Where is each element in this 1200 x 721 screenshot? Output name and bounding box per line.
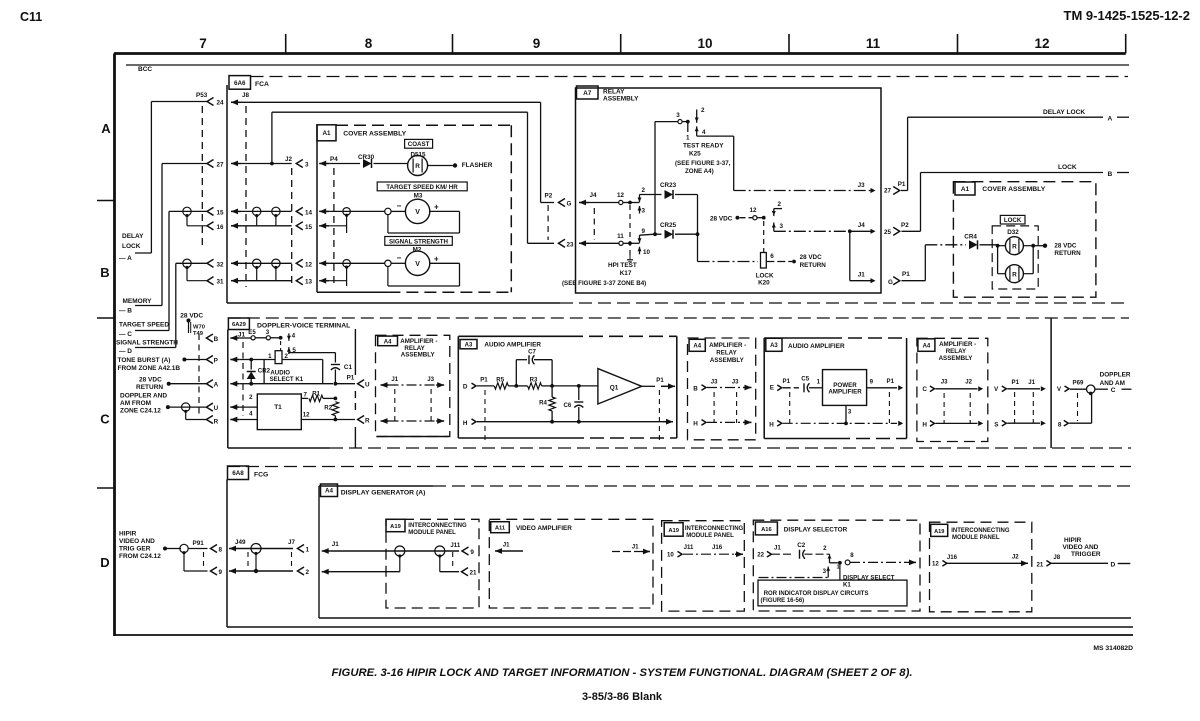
6A29 left chevrons: [206, 334, 213, 342]
svg-text:SIGNAL STRENGTH: SIGNAL STRENGTH: [116, 340, 178, 347]
J8 arrows rows 32/31: [231, 262, 241, 264]
label box 6A6: [229, 76, 251, 90]
svg-text:J3: J3: [711, 379, 718, 386]
label box A4: [689, 339, 705, 351]
label box 6A29: [228, 318, 249, 330]
svg-text:J16: J16: [947, 554, 958, 561]
wire CR23 row: [640, 194, 662, 196]
chevron 27: [207, 159, 214, 167]
label box A1: [955, 182, 975, 195]
svg-text:9: 9: [219, 569, 223, 576]
wires to module panel: [331, 550, 395, 552]
svg-text:MODULE PANEL: MODULE PANEL: [952, 535, 1000, 541]
svg-text:4: 4: [292, 333, 296, 340]
svg-text:TRIG GER: TRIG GER: [119, 546, 151, 553]
wire J8 to G: [241, 101, 541, 103]
svg-text:FCA: FCA: [255, 81, 269, 88]
cover arrow row flasher: [319, 163, 329, 165]
svg-text:A: A: [101, 121, 111, 136]
svg-text:28 VDC: 28 VDC: [180, 313, 203, 320]
svg-text:J7: J7: [288, 539, 296, 546]
svg-text:+: +: [434, 254, 439, 263]
svg-text:A11: A11: [495, 526, 506, 532]
svg-text:HIPIR: HIPIR: [1064, 537, 1082, 544]
svg-text:C5: C5: [801, 375, 809, 382]
A4 amplifier-relay box 3: [917, 338, 988, 441]
svg-text:TARGET SPEED KM/ HR: TARGET SPEED KM/ HR: [386, 184, 458, 191]
svg-text:A4: A4: [325, 488, 334, 495]
meter M2 loop: [429, 262, 459, 264]
svg-text:M3: M3: [414, 193, 423, 200]
svg-text:J2: J2: [285, 156, 293, 163]
svg-text:J1: J1: [503, 542, 510, 549]
svg-text:W70: W70: [193, 325, 205, 331]
svg-text:A19: A19: [934, 529, 944, 535]
6A29 right edge / P1 connector: [354, 329, 356, 375]
box1 dashed J columns: [394, 389, 396, 424]
svg-text:AMPLIFIER -: AMPLIFIER -: [709, 342, 746, 349]
shield circle row 15 left: [183, 207, 191, 215]
svg-text:12: 12: [305, 261, 313, 268]
K25 contact 4: [696, 126, 698, 136]
chevron 23: [559, 239, 566, 247]
svg-text:J11: J11: [450, 542, 460, 549]
svg-text:3: 3: [780, 223, 784, 230]
svg-text:2: 2: [778, 201, 782, 208]
6A29 right edge: [1050, 318, 1052, 448]
svg-text:P1: P1: [347, 375, 355, 382]
label box A3: [460, 340, 477, 349]
svg-text:DOPPLER AND: DOPPLER AND: [120, 393, 167, 400]
svg-text:HIPIR: HIPIR: [119, 531, 137, 538]
svg-text:9: 9: [533, 36, 541, 51]
svg-text:D: D: [463, 384, 468, 391]
J2 dashed line: [291, 168, 293, 287]
svg-text:B: B: [100, 265, 109, 280]
cover arrows rows 14/15: [319, 210, 329, 212]
svg-text:24: 24: [217, 100, 225, 107]
svg-text:+: +: [434, 202, 439, 211]
wire row 32 with shield circles: [241, 262, 292, 264]
J8 dashed line: [245, 106, 247, 287]
wire junction up and right to 23: [271, 112, 273, 163]
svg-text:27: 27: [217, 162, 225, 169]
node down to K20 row: [697, 234, 699, 261]
row16 left loop: [186, 215, 188, 226]
row A to chevron U: [335, 383, 355, 385]
svg-text:R4: R4: [539, 400, 547, 407]
svg-text:28 VDC: 28 VDC: [1054, 243, 1077, 250]
svg-text:22: 22: [757, 552, 764, 559]
svg-text:(SEE FIGURE 3-37,: (SEE FIGURE 3-37,: [675, 160, 731, 167]
svg-text:ZONE C24.12: ZONE C24.12: [120, 407, 161, 414]
svg-text:DISPLAY GENERATOR (A): DISPLAY GENERATOR (A): [341, 490, 426, 497]
svg-text:25: 25: [884, 229, 892, 236]
svg-text:CR2: CR2: [258, 368, 271, 375]
junction dot row 27: [270, 162, 274, 166]
svg-text:28 VDC: 28 VDC: [710, 215, 733, 222]
wire row 15b to loop: [329, 225, 346, 227]
chevron 16: [207, 222, 214, 230]
small circle M2 minus: [385, 260, 391, 266]
svg-text:A1: A1: [961, 186, 970, 193]
small circle M3 minus: [385, 208, 391, 214]
svg-text:V: V: [415, 209, 420, 216]
K17 ground tick: [627, 259, 633, 261]
svg-text:A4: A4: [693, 344, 701, 350]
svg-text:INTERCONNECTING: INTERCONNECTING: [951, 528, 1010, 534]
svg-text:4: 4: [702, 129, 706, 136]
svg-text:3: 3: [676, 112, 680, 119]
svg-text:C6: C6: [564, 402, 572, 409]
A7 RELAY ASSEMBLY box: [576, 88, 882, 293]
svg-text:R: R: [365, 417, 370, 424]
K17 mech dashed link: [629, 205, 631, 258]
svg-text:J3: J3: [858, 182, 866, 189]
svg-text:10: 10: [697, 36, 712, 51]
svg-text:G: G: [567, 201, 572, 208]
flasher dot: [453, 163, 457, 167]
row U wire into T1: [239, 406, 257, 408]
svg-text:BCC: BCC: [138, 66, 152, 73]
svg-text:DOPPLER-VOICE TERMINAL: DOPPLER-VOICE TERMINAL: [257, 323, 350, 330]
svg-text:P1: P1: [480, 377, 488, 384]
6A6 FCA box outline: [251, 76, 1129, 78]
chevron 13: [296, 277, 303, 285]
svg-text:J1: J1: [858, 272, 866, 279]
svg-text:P1: P1: [1012, 379, 1020, 386]
wire to CR30: [329, 163, 360, 165]
svg-text:R: R: [1012, 243, 1017, 250]
Q1 amplifier triangle: [598, 369, 642, 404]
wire signal strength to row 32: [135, 347, 176, 349]
svg-text:32: 32: [217, 261, 225, 268]
T1 transformer: [257, 394, 301, 430]
svg-text:10: 10: [643, 249, 651, 256]
label box A7: [577, 86, 599, 99]
wire row 27 / memory B feed: [162, 163, 207, 165]
svg-text:— C: — C: [119, 331, 132, 338]
row R wire into T1: [239, 419, 257, 421]
svg-text:K17: K17: [620, 270, 632, 277]
svg-text:9: 9: [470, 549, 474, 556]
wire to C6: [552, 385, 579, 387]
label box A4: [321, 484, 338, 497]
lamp bracket: [996, 244, 1000, 248]
svg-text:12: 12: [749, 207, 757, 214]
A11 box: [489, 519, 653, 608]
label box A4: [918, 339, 935, 352]
svg-text:LOCK: LOCK: [122, 243, 141, 250]
svg-text:J11: J11: [684, 544, 694, 551]
svg-text:D: D: [100, 555, 109, 570]
svg-text:21: 21: [1037, 562, 1044, 569]
wire into meter M3: [329, 210, 388, 212]
svg-text:VIDEO AND: VIDEO AND: [1063, 544, 1099, 551]
svg-text:ASSEMBLY: ASSEMBLY: [603, 96, 639, 103]
svg-text:ASSEMBLY: ASSEMBLY: [401, 352, 436, 359]
T1 out 12 row R: [301, 419, 335, 421]
svg-text:AMPLIFIER -: AMPLIFIER -: [939, 341, 976, 348]
svg-text:TARGET SPEED: TARGET SPEED: [119, 322, 169, 329]
svg-text:P53: P53: [196, 92, 208, 99]
label box A3: [766, 338, 782, 351]
svg-text:— A: — A: [119, 255, 132, 262]
svg-text:U: U: [365, 382, 370, 389]
lamp D32 bottom: [998, 273, 1005, 275]
K17 contact 2: [639, 195, 641, 203]
svg-text:J1: J1: [632, 544, 639, 551]
svg-text:AMPLIFIER: AMPLIFIER: [828, 388, 862, 395]
svg-text:AUDIO AMPLIFIER: AUDIO AMPLIFIER: [484, 342, 541, 349]
J8 arrows rows 15/16: [231, 210, 241, 212]
svg-text:COVER ASSEMBLY: COVER ASSEMBLY: [343, 131, 406, 138]
svg-text:C: C: [922, 386, 927, 393]
svg-text:(FIGURE 16-56): (FIGURE 16-56): [761, 598, 805, 604]
row31 left loop: [186, 267, 188, 281]
wire to J7: [238, 548, 293, 550]
svg-text:16: 16: [217, 224, 225, 231]
wire CR30 to lamp: [374, 163, 408, 165]
svg-text:11: 11: [866, 36, 881, 51]
svg-text:J1: J1: [332, 541, 340, 548]
svg-text:A4: A4: [923, 343, 931, 349]
svg-text:H: H: [769, 421, 774, 428]
svg-text:31: 31: [217, 279, 225, 286]
label box A19: [386, 519, 405, 531]
svg-text:6: 6: [770, 253, 774, 260]
wire row 31: [241, 280, 292, 282]
svg-text:VIDEO AMPLIFIER: VIDEO AMPLIFIER: [516, 525, 572, 532]
meter M2: [391, 262, 406, 264]
wire row 16: [241, 225, 292, 227]
CR23 cathode down to CR25 node: [697, 195, 699, 235]
svg-text:— D: — D: [119, 348, 132, 355]
svg-text:AND AM: AND AM: [1100, 380, 1125, 387]
J1 row out of relay: [849, 231, 851, 280]
K1 mech dashed: [280, 341, 282, 351]
J8 arrow row 24: [231, 101, 241, 103]
TEST READY K25 contacts: [654, 122, 656, 235]
LOCK label box: [1000, 215, 1025, 224]
junction + contact 8: [830, 560, 840, 563]
K25 contact 2: [696, 110, 698, 123]
svg-text:G: G: [888, 279, 893, 286]
K20 contact 3: [773, 223, 775, 231]
svg-text:INTERCONNECTING: INTERCONNECTING: [408, 523, 467, 529]
wire into meter M2: [329, 262, 388, 264]
svg-text:COAST: COAST: [408, 141, 430, 148]
svg-text:E5: E5: [248, 329, 256, 336]
svg-text:A7: A7: [583, 90, 592, 97]
svg-text:K20: K20: [758, 280, 770, 287]
wire row 13 to loop: [329, 280, 346, 282]
svg-text:RELAY: RELAY: [946, 348, 967, 355]
K20 mech dashed: [763, 221, 765, 252]
svg-text:8: 8: [1058, 421, 1062, 428]
svg-text:J2: J2: [1012, 554, 1019, 561]
svg-text:11: 11: [617, 233, 624, 240]
chevron 24: [207, 97, 214, 105]
K1 link to ROR box: [839, 563, 841, 580]
svg-text:MS 314082D: MS 314082D: [1093, 645, 1133, 652]
svg-text:C2: C2: [797, 542, 806, 549]
BCC inner top line: [126, 64, 1129, 66]
svg-text:A19: A19: [390, 524, 401, 530]
svg-text:J49: J49: [235, 539, 246, 546]
svg-text:RETURN: RETURN: [136, 384, 163, 391]
box1 row H wire: [381, 420, 389, 422]
assembly 6A8 FCG label: [227, 466, 1131, 468]
svg-text:S: S: [994, 421, 998, 428]
A16 box: [753, 520, 920, 611]
svg-text:9: 9: [642, 228, 646, 235]
svg-text:AM FROM: AM FROM: [120, 400, 151, 407]
svg-text:FLASHER: FLASHER: [462, 162, 493, 169]
K1 contact 2: [829, 549, 831, 554]
svg-text:3: 3: [642, 208, 646, 215]
svg-text:P: P: [214, 357, 218, 364]
A4 amplifier-relay box 2: [688, 338, 756, 440]
svg-text:FCG: FCG: [254, 472, 268, 479]
svg-text:J16: J16: [712, 544, 723, 551]
lamp D32 top: [998, 245, 1005, 247]
ruler tick marks: [285, 34, 287, 54]
C7 feedback: [515, 360, 517, 386]
POWER AMPLIFIER box: [823, 370, 867, 406]
svg-text:E: E: [770, 384, 774, 391]
svg-text:C: C: [100, 412, 110, 427]
svg-text:DISPLAY SELECTOR: DISPLAY SELECTOR: [784, 527, 848, 534]
C1 cap: [331, 364, 340, 366]
label box A19: [664, 523, 683, 537]
LOCK K20 coil: [761, 253, 767, 269]
svg-text:P1: P1: [898, 181, 906, 188]
svg-text:13: 13: [305, 279, 313, 286]
svg-text:MEMORY: MEMORY: [123, 298, 153, 305]
meter M3 loop: [429, 210, 459, 212]
svg-text:P1: P1: [656, 377, 664, 384]
svg-text:VIDEO AND: VIDEO AND: [119, 538, 155, 545]
svg-text:H: H: [463, 420, 468, 427]
svg-text:6A29: 6A29: [232, 322, 247, 328]
svg-text:2: 2: [306, 569, 310, 576]
svg-text:P4: P4: [330, 156, 338, 163]
wire row 15 with shield circles: [241, 210, 292, 212]
svg-text:6A6: 6A6: [234, 80, 246, 87]
svg-text:15: 15: [217, 209, 225, 216]
lamp dashed box: [992, 226, 1038, 289]
A4 DISPLAY GENERATOR box: [319, 485, 433, 487]
svg-text:27: 27: [884, 188, 892, 195]
K25 wire from contact 4 to J3 row: [697, 135, 734, 137]
svg-text:TRIGGER: TRIGGER: [1071, 551, 1101, 558]
svg-text:A3: A3: [465, 343, 473, 349]
wire 27/P1 up to DELAY LOCK: [901, 190, 908, 192]
J8 arrow row 27: [231, 163, 241, 165]
svg-text:J3: J3: [732, 379, 739, 386]
svg-text:J4: J4: [590, 192, 598, 199]
label box A1: [317, 125, 336, 141]
label box 6A8: [228, 466, 249, 480]
meter M2 label box: [385, 237, 453, 246]
svg-text:A: A: [1108, 116, 1113, 123]
COAST label box: [405, 139, 433, 148]
svg-text:2: 2: [642, 187, 646, 194]
svg-text:21: 21: [470, 570, 478, 577]
A3 audio amplifier box 1: [457, 336, 459, 438]
svg-text:ROR INDICATOR DISPLAY CIRCUIT: ROR INDICATOR DISPLAY CIRCUITS: [764, 591, 869, 597]
6A29 box outline: [227, 330, 229, 449]
svg-text:RETURN: RETURN: [1054, 250, 1081, 257]
K17 contact 9: [639, 235, 641, 243]
svg-text:A19: A19: [668, 528, 679, 534]
svg-text:J3: J3: [941, 379, 948, 386]
svg-text:−: −: [397, 253, 402, 262]
A19 box 2: [662, 521, 745, 611]
svg-text:B: B: [693, 386, 698, 393]
svg-text:B: B: [1108, 171, 1113, 178]
outer border BCC box: [114, 52, 1126, 55]
cable dashed line down to row B: [198, 334, 200, 417]
svg-text:RELAY: RELAY: [716, 349, 737, 356]
svg-text:R: R: [1012, 271, 1017, 278]
svg-text:M2: M2: [413, 247, 422, 254]
svg-text:C1: C1: [344, 364, 353, 371]
svg-text:T49: T49: [193, 331, 204, 337]
row P wire: [239, 359, 251, 361]
svg-text:TEST READY: TEST READY: [683, 143, 724, 150]
svg-text:INTERCONNECTING: INTERCONNECTING: [685, 526, 744, 532]
svg-text:FROM C24.12: FROM C24.12: [119, 553, 161, 560]
A4 amplifier-relay box 1: [376, 335, 450, 436]
svg-text:K1: K1: [843, 582, 851, 589]
svg-text:HPI TEST: HPI TEST: [608, 262, 637, 269]
chevron 14: [296, 207, 303, 215]
Q1 out: [642, 385, 655, 387]
svg-text:CR25: CR25: [660, 222, 677, 229]
svg-text:J8: J8: [1053, 554, 1060, 561]
shield circle P69: [1087, 385, 1095, 393]
svg-text:ASSEMBLY: ASSEMBLY: [939, 355, 974, 362]
zone ticks: [97, 200, 115, 202]
svg-text:A16: A16: [761, 527, 772, 533]
chevron 3 on J2: [296, 159, 303, 167]
K1 contact 5: [288, 347, 290, 354]
svg-text:LOCK: LOCK: [1058, 164, 1077, 171]
row A wire: [239, 383, 251, 385]
A19 box 3: [930, 522, 1032, 612]
svg-text:J1: J1: [774, 545, 781, 552]
label box A19: [931, 524, 948, 536]
K17 contact 10: [639, 247, 641, 255]
wire 25/P2 up to LOCK: [902, 230, 921, 232]
wire to lock coil K20: [698, 261, 759, 263]
6A8 FCG box outline: [226, 480, 228, 628]
wire to 28vdc return: [1033, 245, 1043, 247]
shield circle row 32 left: [183, 259, 191, 267]
svg-text:CR4: CR4: [964, 234, 977, 241]
J3 row out of relay: [734, 190, 871, 192]
svg-text:J3: J3: [427, 376, 434, 383]
svg-text:12: 12: [1034, 36, 1049, 51]
svg-text:P1: P1: [783, 378, 791, 385]
svg-text:8: 8: [219, 546, 223, 553]
svg-text:— B: — B: [119, 308, 132, 315]
K1 coil on row P: [275, 351, 282, 364]
svg-text:12: 12: [932, 561, 939, 568]
svg-text:MODULE PANEL: MODULE PANEL: [408, 530, 456, 536]
